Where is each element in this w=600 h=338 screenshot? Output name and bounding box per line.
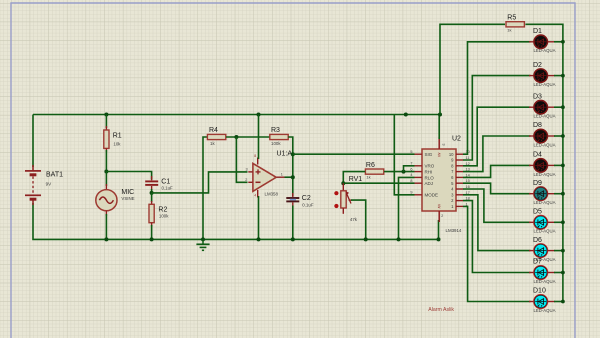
LED D1 (off) <box>529 35 555 49</box>
junction R6/VRO/RHI node <box>402 170 406 174</box>
svg-text:8: 8 <box>254 154 256 158</box>
wire V+ bus to U2 <box>438 115 440 140</box>
svg-text:D4: D4 <box>533 152 542 159</box>
wire R5 to LED cathode bus <box>525 24 563 301</box>
junction D1 on cathode bus <box>561 40 565 44</box>
svg-text:6: 6 <box>410 167 412 171</box>
svg-text:R3: R3 <box>271 127 280 134</box>
junction output node <box>291 175 295 179</box>
resistor R5 body <box>506 22 524 27</box>
svg-text:D3: D3 <box>533 93 542 100</box>
LED D6 (on) <box>529 244 555 258</box>
wire C1 bottom <box>151 189 153 193</box>
wire R4 left to ground <box>203 137 207 239</box>
wire U2 pin to D6 <box>463 195 531 251</box>
wire RV1 wiper to ground <box>351 200 366 239</box>
svg-text:8: 8 <box>410 179 412 183</box>
junction RV1 wiper on ground bus <box>364 237 368 241</box>
IC U2 LM3914 <box>422 149 456 211</box>
svg-text:R2: R2 <box>158 207 167 214</box>
junction opamp V- on ground bus <box>257 237 261 241</box>
capacitor C2 <box>286 193 299 207</box>
wire opamp V- to ground <box>258 196 260 239</box>
svg-text:⋛: ⋛ <box>438 204 441 209</box>
svg-text:0.1uF: 0.1uF <box>302 203 314 208</box>
svg-text:C2: C2 <box>302 195 311 202</box>
svg-text:2: 2 <box>441 214 443 218</box>
svg-text:LED-AQUA: LED-AQUA <box>534 279 556 284</box>
junction MODE on V+ bus <box>404 113 408 117</box>
svg-text:100k: 100k <box>271 141 281 146</box>
wire U2 pin to D9 <box>463 183 531 194</box>
svg-text:RLO: RLO <box>425 175 435 180</box>
junction D9 on cathode bus <box>561 192 565 196</box>
svg-text:5: 5 <box>410 150 412 154</box>
wire MODE to V+ <box>394 115 414 195</box>
LED D3 (off) <box>529 100 555 114</box>
wire V+ top bus <box>33 114 440 116</box>
wire U2 pin to D10 <box>463 206 531 301</box>
wire R2 bottom to ground bus <box>151 225 153 239</box>
battery BAT1 <box>25 165 41 205</box>
wire R6 left to RV1 node <box>343 172 365 184</box>
wire D2 cathode to bus <box>554 75 563 77</box>
junction D6 on cathode bus <box>561 249 565 253</box>
capacitor C1 <box>145 176 158 191</box>
wire RLO to ground <box>399 177 415 239</box>
wire mic bottom to ground bus <box>105 214 107 239</box>
junction U2 V- on ground bus <box>437 237 441 241</box>
svg-text:47k: 47k <box>350 217 358 222</box>
junction D7 on cathode bus <box>561 271 565 275</box>
junction D4 on cathode bus <box>561 164 565 168</box>
svg-text:1: 1 <box>281 173 283 177</box>
wire U2 pin to D3 <box>463 107 531 166</box>
svg-text:10: 10 <box>449 152 454 157</box>
U2 V+ pin 3 <box>438 137 440 149</box>
svg-text:2: 2 <box>245 178 247 182</box>
wire U2 pin to D8 <box>463 136 531 172</box>
wire mic to C1 <box>106 172 151 180</box>
svg-text:Alarm Aslik: Alarm Aslik <box>428 307 454 313</box>
svg-text:3: 3 <box>246 168 248 172</box>
source MIC VSINE <box>96 190 117 211</box>
svg-text:BAT1: BAT1 <box>46 172 63 179</box>
wire mic top lead <box>105 172 107 187</box>
svg-text:1k: 1k <box>210 141 215 146</box>
LED D2 (off) <box>529 69 555 83</box>
svg-text:RV1: RV1 <box>349 176 363 183</box>
svg-text:LED-AQUA: LED-AQUA <box>534 82 556 87</box>
svg-text:SIG: SIG <box>425 152 433 157</box>
svg-text:1k: 1k <box>507 28 511 33</box>
op-amp U1:A <box>248 158 285 198</box>
wire R6 right to RHI <box>384 171 415 173</box>
svg-text:D10: D10 <box>533 288 546 295</box>
wire V+ to R5 left <box>440 24 505 114</box>
wire R1 top <box>105 115 107 129</box>
ground <box>196 239 209 250</box>
svg-text:VRO: VRO <box>425 164 435 169</box>
junction R4/gnd node <box>201 237 205 241</box>
junction R4/R3 node to inverting input <box>234 135 238 139</box>
wire R4 to R3 <box>226 136 270 138</box>
svg-text:U1:A: U1:A <box>277 151 293 158</box>
svg-text:⋛: ⋛ <box>438 152 441 157</box>
svg-text:LED-AQUA: LED-AQUA <box>534 200 556 205</box>
wire C2 bottom to ground <box>292 206 294 240</box>
LED D7 (on) <box>529 266 555 280</box>
U2 left pins <box>415 154 423 195</box>
wire opamp V+ riser <box>258 115 260 160</box>
wire U2 pin to D1 <box>463 42 531 154</box>
svg-text:9V: 9V <box>46 182 53 187</box>
svg-text:LM3914: LM3914 <box>446 228 462 233</box>
svg-text:4: 4 <box>254 194 256 198</box>
junction mic top node <box>104 170 108 174</box>
wire D7 cathode to bus <box>554 272 563 274</box>
wire output to U2 SIG <box>293 153 415 155</box>
svg-text:0.1uF: 0.1uF <box>162 186 174 191</box>
wire D4 cathode to bus <box>554 164 563 166</box>
wire U2 pin to D4 <box>463 165 531 177</box>
wire D9 cathode to bus <box>554 193 563 195</box>
junction D10 on cathode bus <box>561 300 565 304</box>
svg-text:10k: 10k <box>113 142 121 147</box>
wire VRO tie <box>404 166 415 172</box>
svg-text:R4: R4 <box>209 127 218 134</box>
wire D8 cathode to bus <box>554 135 563 137</box>
wire D1 cathode to bus <box>554 41 563 43</box>
U2 right pins <box>456 154 463 206</box>
svg-text:R5: R5 <box>507 14 516 21</box>
svg-text:100k: 100k <box>159 214 169 219</box>
svg-text:VSINE: VSINE <box>121 196 134 201</box>
LED D8 (off) <box>529 129 555 143</box>
wire R2 top <box>151 193 153 202</box>
svg-text:1k: 1k <box>366 174 370 179</box>
resistor R4 body <box>207 134 225 139</box>
svg-text:RHI: RHI <box>425 170 433 175</box>
LED D9 (half) <box>529 187 555 201</box>
svg-text:LED-AQUA: LED-AQUA <box>534 142 556 147</box>
wire U2 pin to D2 <box>463 76 531 160</box>
junction output to SIG branch <box>291 152 295 156</box>
wire R1 bottom to mic node <box>105 150 107 172</box>
wire battery top riser <box>32 115 34 168</box>
svg-text:ADJ: ADJ <box>425 181 434 186</box>
svg-text:D1: D1 <box>533 28 542 35</box>
svg-text:D8: D8 <box>533 122 542 129</box>
wire ADJ line <box>343 182 414 184</box>
wire D5 cathode to bus <box>554 221 563 223</box>
junction V+ bus corner to R5 <box>438 113 442 117</box>
wire D10 cathode to bus <box>554 301 563 303</box>
svg-text:9: 9 <box>410 191 412 195</box>
svg-text:D5: D5 <box>533 209 542 216</box>
svg-text:D9: D9 <box>533 180 542 187</box>
junction RLO on ground bus <box>397 237 401 241</box>
svg-text:D7: D7 <box>533 259 542 266</box>
resistor R6 body <box>365 169 383 174</box>
svg-text:LED-AQUA: LED-AQUA <box>534 172 556 177</box>
wire opamp output <box>285 176 293 178</box>
wire U2 pin to D5 <box>463 189 531 222</box>
svg-text:MODE: MODE <box>425 193 439 198</box>
potentiometer RV1 <box>334 183 352 214</box>
svg-text:LM358: LM358 <box>265 192 279 197</box>
wire U2 pin to D7 <box>463 201 531 273</box>
junction C2 on ground bus <box>291 237 295 241</box>
junction C1/R2 node <box>150 191 154 195</box>
resistor R2 body <box>149 204 154 222</box>
junction D2 on cathode bus <box>561 74 565 78</box>
junction RV1 top node <box>341 181 345 185</box>
junction R1 top on V+ bus <box>104 113 108 117</box>
wire D6 cathode to bus <box>554 250 563 252</box>
wire ground bus <box>33 203 439 239</box>
wire feedback node to opamp - <box>236 137 247 182</box>
svg-text:R6: R6 <box>366 162 375 169</box>
svg-text:7: 7 <box>410 162 412 166</box>
svg-text:LED-AQUA: LED-AQUA <box>534 114 556 119</box>
svg-text:U2: U2 <box>452 136 461 143</box>
svg-text:D2: D2 <box>533 62 542 69</box>
U2 V- pin 2 <box>438 211 440 222</box>
svg-text:C1: C1 <box>161 178 170 185</box>
junction D5 on cathode bus <box>561 220 565 224</box>
svg-text:R1: R1 <box>113 133 122 140</box>
LED D10 (on) <box>529 295 555 309</box>
LED D5 (on) <box>529 215 555 229</box>
resistor R3 body <box>270 134 288 139</box>
svg-text:3: 3 <box>442 144 446 146</box>
junction mic on ground bus <box>104 237 108 241</box>
junction D8 on cathode bus <box>561 134 565 138</box>
LED D4 (off) <box>529 159 555 173</box>
svg-text:4: 4 <box>410 173 412 177</box>
junction R2 on ground bus <box>150 237 154 241</box>
svg-text:LED-AQUA: LED-AQUA <box>534 48 556 53</box>
wire C1 node to opamp + <box>152 172 248 193</box>
svg-text:D6: D6 <box>533 237 542 244</box>
svg-text:LED-AQUA: LED-AQUA <box>534 229 556 234</box>
wire R3 right to output node <box>288 137 293 196</box>
resistor R1 body <box>104 130 109 148</box>
wire D3 cathode to bus <box>554 106 563 108</box>
junction opamp V+ on bus <box>257 113 261 117</box>
svg-text:LED-AQUA: LED-AQUA <box>534 308 556 313</box>
junction D3 on cathode bus <box>561 105 565 109</box>
